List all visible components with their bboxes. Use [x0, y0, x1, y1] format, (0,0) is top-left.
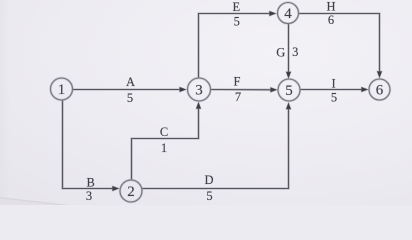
label duration 5 (E)	[234, 14, 240, 28]
label duration 1 (C)	[161, 141, 167, 155]
svg-text:I: I	[332, 76, 336, 90]
label activity E	[232, 0, 240, 14]
node 3 label	[195, 83, 203, 99]
label activity H	[326, 0, 335, 14]
label activity F	[234, 75, 241, 89]
wire: activity G line (node 4 down to node 5)	[287, 24, 290, 76]
node 3 circle	[188, 78, 211, 101]
node 2 label	[127, 184, 135, 200]
svg-text:5: 5	[234, 14, 240, 28]
wire: activity F line (node 3 to node 5)	[211, 88, 275, 91]
svg-text:3: 3	[195, 83, 203, 99]
node 5 circle	[278, 79, 300, 101]
label duration 7 (F)	[235, 90, 241, 104]
arrowhead F into node 5	[270, 87, 277, 92]
svg-text:F: F	[234, 75, 241, 89]
arrowhead D into node 5 (pointing up)	[286, 102, 291, 109]
label duration 3 (G)	[292, 45, 298, 59]
arrowhead G into node 5 (pointing down)	[286, 72, 291, 79]
label duration 6 (H)	[328, 13, 334, 27]
label activity D	[204, 173, 213, 187]
svg-text:G: G	[276, 46, 285, 60]
svg-text:6: 6	[376, 83, 384, 99]
label activity I	[332, 76, 336, 90]
svg-text:1: 1	[161, 141, 167, 155]
svg-text:E: E	[232, 0, 240, 14]
svg-text:6: 6	[328, 13, 334, 27]
svg-text:5: 5	[285, 83, 293, 99]
label activity A	[126, 75, 135, 89]
svg-text:5: 5	[127, 91, 133, 105]
node 5 label	[285, 83, 293, 99]
wire: activity A line (node 1 to node 3)	[73, 88, 184, 91]
svg-text:3: 3	[292, 45, 298, 59]
wire: activity C line (node 2 up, right, then up to node 3)	[132, 105, 199, 180]
svg-text:D: D	[204, 173, 213, 187]
node 1 circle	[51, 78, 73, 100]
arrowhead A into node 3	[180, 87, 187, 92]
svg-text:5: 5	[331, 90, 337, 104]
wire: activity B line (node 1 down, then right to node 2)	[63, 100, 117, 188]
svg-text:5: 5	[206, 189, 212, 203]
label duration 5 (I)	[331, 90, 337, 104]
label duration 5 (A)	[127, 91, 133, 105]
svg-text:A: A	[126, 75, 135, 89]
label activity C	[160, 125, 168, 139]
node 4 label	[284, 6, 292, 22]
node 6 label	[376, 83, 384, 99]
svg-text:4: 4	[284, 6, 292, 22]
arrowhead I into node 6	[361, 87, 368, 92]
svg-text:B: B	[87, 176, 95, 190]
page edge (photo crease, bottom-left)	[0, 198, 68, 207]
arrowhead H into node 6 (pointing down)	[377, 71, 382, 78]
wire: activity I line (node 5 to node 6)	[300, 88, 365, 91]
svg-text:C: C	[160, 125, 168, 139]
node 2 circle	[120, 180, 142, 202]
svg-text:H: H	[326, 0, 335, 14]
node 6 circle	[369, 79, 390, 100]
wire: activity E line (node 3 up, then right to node 4)	[199, 14, 275, 78]
node 4 circle	[278, 3, 299, 24]
svg-text:7: 7	[235, 90, 241, 104]
label activity B	[87, 176, 95, 190]
arrowhead B into node 2	[112, 186, 119, 191]
label activity G	[276, 46, 285, 60]
wire: activity D line (node 2 right, then up to node 5)	[142, 106, 288, 189]
svg-text:2: 2	[127, 184, 135, 200]
label duration 5 (D)	[206, 189, 212, 203]
wire: activity H line (node 4 right, then down to node 6)	[299, 14, 380, 76]
svg-text:1: 1	[58, 82, 66, 98]
arrowhead E into node 4	[269, 11, 276, 16]
svg-text:3: 3	[86, 189, 92, 203]
node 1 label	[58, 82, 66, 98]
arrowhead C into node 3 (pointing up)	[196, 102, 201, 109]
label duration 3 (B)	[86, 189, 92, 203]
